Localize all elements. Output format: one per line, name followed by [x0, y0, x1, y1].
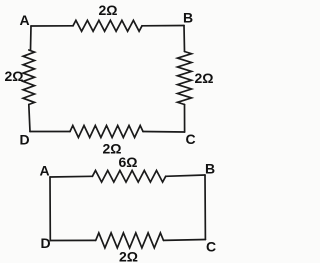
wire bottom D2 to resistor	[50, 239, 95, 241]
svg-text:2Ω: 2Ω	[195, 70, 214, 86]
resistor R-right 2ohm	[178, 52, 192, 105]
resistor R-top2 6ohm	[92, 171, 165, 183]
svg-text:A: A	[40, 163, 50, 179]
wire left A down	[30, 26, 33, 50]
svg-text:D: D	[41, 235, 51, 251]
wire right B down	[183, 26, 186, 52]
wire left to D corner	[29, 105, 30, 132]
wire top-left A2 to resistor	[50, 175, 92, 178]
svg-text:2Ω: 2Ω	[119, 249, 138, 263]
resistor R-top 2ohm	[73, 20, 142, 31]
wire top-left A to resistor	[31, 25, 73, 27]
wire resistor to B corner	[142, 25, 184, 27]
svg-text:2Ω: 2Ω	[5, 68, 24, 84]
wire bottom D to resistor	[30, 131, 70, 133]
wire resistor to C2 corner	[164, 239, 206, 242]
resistor R-bottom2 2ohm	[96, 233, 164, 248]
svg-text:B: B	[183, 10, 193, 26]
wire resistor to C corner	[143, 131, 185, 134]
svg-text:C: C	[186, 131, 196, 147]
svg-text:6Ω: 6Ω	[119, 154, 138, 170]
svg-text:C: C	[206, 239, 216, 255]
svg-text:A: A	[20, 12, 30, 28]
wire resistor to B2 corner	[166, 175, 205, 176]
resistor R-left 2ohm	[23, 50, 34, 105]
svg-text:B: B	[205, 161, 215, 177]
wire right side circuit2	[204, 175, 206, 240]
svg-text:2Ω: 2Ω	[99, 2, 118, 18]
resistor R-bottom 2ohm	[70, 126, 143, 138]
svg-text:D: D	[20, 132, 30, 148]
wire right to C corner	[184, 105, 186, 133]
wire left side circuit2	[49, 177, 51, 241]
